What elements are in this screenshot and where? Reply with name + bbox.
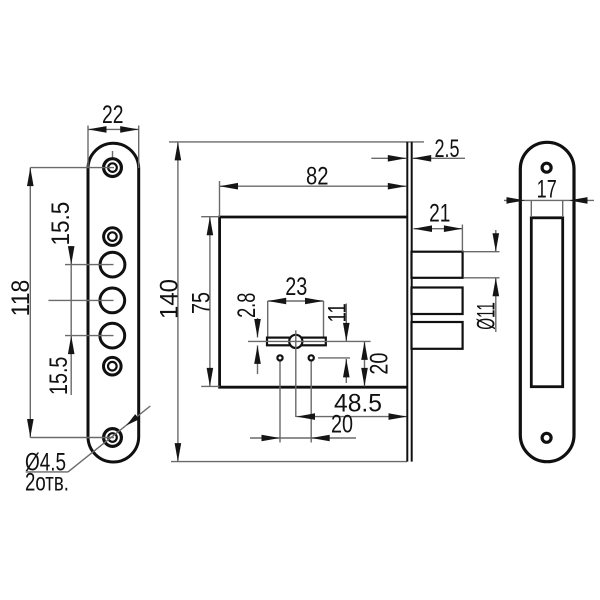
dimension 140: arrowhead 2 [175, 443, 182, 462]
bottom screw hole [104, 429, 122, 447]
dimension Ø11: line 3 [495, 230, 497, 252]
vertical centerline [295, 330, 297, 417]
svg-text:2.8: 2.8 [233, 293, 261, 318]
dimension 11: line 2 [345, 359, 347, 383]
strike top hole [542, 163, 551, 172]
dimension 2.5: line 2 [413, 157, 465, 159]
ext line to top screw hole [30, 167, 114, 169]
bolt 2 [412, 288, 463, 315]
dimension 21: line 1 [461, 225, 463, 252]
dimension 75: line 2 [201, 385, 219, 387]
svg-text:20: 20 [331, 411, 353, 439]
dimension 75: arrowhead 1 [207, 217, 214, 236]
dimension 21: line 2 [414, 228, 463, 230]
body outline (open right) [220, 217, 407, 387]
dimension 48.5: arrowhead 2 [389, 413, 408, 420]
svg-text:15.5: 15.5 [45, 357, 73, 395]
dimension 21: arrowhead 1 [414, 225, 433, 232]
hole B center line [65, 264, 114, 266]
dimension 20 (bottom, horizontal): arrowhead 1 [262, 435, 281, 442]
dimension 82: arrowhead 2 [388, 183, 407, 190]
dimension 118: arrowhead 2 [27, 419, 34, 438]
hole A [104, 228, 122, 246]
dimension 11: arrowhead 1 [343, 323, 350, 342]
dimension 75: arrowhead 2 [207, 368, 214, 387]
dimension 20 (right, vertical): arrowhead 2 [361, 368, 368, 387]
dimension Ø11: line 1 [464, 251, 500, 253]
strike bottom hole [542, 433, 551, 442]
dimension Ø11: arrowhead 2 [493, 278, 500, 297]
dimension 82: line 1 [219, 181, 221, 217]
svg-text:118: 118 [7, 280, 35, 317]
svg-text:Ø11: Ø11 [473, 302, 501, 330]
dimension 11: line 1 [345, 304, 347, 342]
dimension 15.5 top / bottom (shared line): line 1 [70, 246, 72, 395]
hole D [100, 323, 125, 348]
leader Ø4.5 2 holes: arrowhead 1 [126, 414, 139, 425]
ext line down from left fixing hole [279, 362, 281, 443]
dimension 2.8: line 2 [257, 345, 259, 374]
dimension 22: line 1 [87, 126, 89, 169]
svg-text:140: 140 [155, 279, 183, 319]
svg-text:22: 22 [102, 101, 124, 129]
ext line to bottom screw hole [30, 437, 114, 439]
dimension 15.5 top / bottom (shared line): arrowhead 2 [68, 336, 75, 355]
ext line down from right fixing hole [310, 362, 312, 443]
leader Ø4.5 2 holes: line 1 [26, 471, 68, 473]
fixing hole left [277, 355, 282, 360]
dimension 22: line 2 [138, 126, 140, 169]
dimension 48.5: line 1 [297, 416, 408, 418]
strike plate outline [520, 142, 574, 461]
bolt 3 [412, 322, 463, 349]
dimension 20 (bottom, horizontal): arrowhead 2 [311, 435, 330, 442]
inner rectangle with dim 23 [268, 300, 324, 302]
dimension 2.8: arrowhead 2 [254, 345, 261, 364]
dimension 140: arrowhead 1 [175, 142, 182, 161]
svg-text:75: 75 [187, 292, 215, 314]
faceplate outline [88, 143, 139, 462]
dimension 2.5: arrowhead 2 [413, 155, 432, 162]
dimension 20 (bottom, horizontal): line 1 [250, 437, 356, 439]
dimension 11: arrowhead 2 [343, 359, 350, 378]
top screw hole [104, 159, 122, 177]
svg-text:11: 11 [324, 303, 352, 322]
dimension 82: arrowhead 1 [220, 183, 239, 190]
dimension 17: line 3 [562, 200, 564, 216]
dimension Ø11: line 2 [464, 277, 500, 279]
dimension 75: line 1 [201, 216, 219, 218]
dimension 75: line 3 [209, 217, 211, 387]
dimension 22: arrowhead 1 [88, 126, 107, 133]
fixing hole right [309, 355, 314, 360]
bolt 1 [412, 252, 463, 278]
svg-text:2отв.: 2отв. [25, 469, 69, 497]
svg-text:2.5: 2.5 [435, 135, 460, 163]
hole C [100, 288, 125, 313]
hole D center line [65, 335, 114, 337]
dimension 118: arrowhead 1 [27, 168, 34, 187]
hole E [104, 357, 122, 375]
dimension 22: arrowhead 2 [120, 126, 139, 133]
dimension 20 (right, vertical): line 1 [364, 341, 366, 386]
hole B [100, 252, 125, 277]
dimension 2.5: line 1 [371, 157, 406, 159]
dimension Ø11: arrowhead 1 [493, 233, 500, 252]
dimension 21: arrowhead 2 [444, 225, 463, 232]
leader Ø4.5 2 holes: line 2 [68, 406, 150, 472]
strike inner rectangle [531, 218, 562, 387]
svg-text:20: 20 [365, 353, 393, 375]
hole C center line [48, 299, 113, 301]
follower boss circle [289, 335, 302, 348]
faceplate edge left line [406, 142, 408, 462]
top screw hole center mark [112, 151, 114, 159]
dimension 140: line 2 [171, 461, 407, 463]
dimension 140: line 3 [177, 142, 179, 462]
svg-text:23: 23 [285, 273, 307, 301]
dimension 118: line 1 [29, 168, 31, 438]
follower bar [267, 338, 326, 346]
dimension 17: line 1 [504, 199, 594, 201]
dimension 15.5 top / bottom (shared line): arrowhead 1 [68, 246, 75, 265]
svg-text:17: 17 [537, 176, 557, 204]
dimension 17: arrowhead 2 [569, 197, 588, 204]
dimension 17: line 2 [530, 200, 532, 216]
dimension Ø11: line 4 [495, 278, 497, 332]
svg-text:82: 82 [306, 162, 329, 190]
faceplate edge right line [411, 142, 413, 462]
horizontal centerline of bar [248, 340, 371, 342]
dimension 2.5: arrowhead 1 [388, 155, 407, 162]
dimension 20 (right, vertical): arrowhead 1 [361, 341, 368, 360]
dimension 82: line 2 [220, 185, 407, 187]
dimension 2.8: arrowhead 1 [254, 319, 261, 338]
ext line through fixing holes [318, 357, 350, 359]
dimension 2.8: line 1 [257, 318, 259, 338]
dimension 48.5: arrowhead 1 [297, 413, 316, 420]
svg-text:15.5: 15.5 [47, 202, 75, 246]
dimension 140: line 1 [169, 141, 424, 143]
dimension 17: arrowhead 1 [507, 197, 526, 204]
svg-text:21: 21 [429, 200, 450, 228]
dimension 22: line 3 [88, 128, 139, 130]
